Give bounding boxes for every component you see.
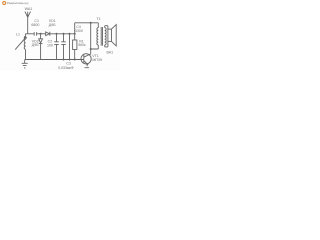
transformer core — [101, 27, 102, 46]
wire: top horizontal — [26, 33, 34, 35]
wire: drop to base line — [69, 34, 71, 60]
svg-text:Д9Б: Д9Б — [32, 43, 39, 47]
svg-text:Радиосхемы.ру: Радиосхемы.ру — [7, 1, 29, 5]
node dot — [74, 33, 76, 35]
wire: power rail — [75, 22, 99, 24]
diode VD1 — [46, 32, 50, 36]
diode VD2 — [39, 34, 43, 60]
svg-text:ВА1: ВА1 — [107, 51, 114, 55]
svg-text:L1: L1 — [16, 32, 20, 36]
transformer T1 secondary — [105, 26, 106, 47]
wire: bottom horizontal — [25, 59, 84, 61]
wire — [37, 33, 46, 35]
node dot — [74, 59, 76, 61]
node dot — [63, 33, 65, 35]
wire: secondary to speaker — [105, 26, 108, 47]
watermark logo — [2, 1, 6, 5]
capacitor C2 — [54, 34, 59, 60]
svg-text:Д9Б: Д9Б — [49, 23, 56, 27]
svg-text:МП39: МП39 — [92, 58, 102, 62]
transformer T1 primary — [97, 23, 98, 49]
capacitor C1 — [34, 32, 36, 36]
wire — [50, 33, 75, 35]
transistor VT1 — [81, 54, 91, 64]
svg-text:Т1: Т1 — [96, 17, 100, 21]
inductor L1 — [24, 34, 25, 60]
svg-text:560к: 560к — [78, 43, 86, 47]
node dot — [69, 33, 71, 35]
speaker BA1 — [108, 29, 112, 41]
wire — [74, 50, 76, 60]
svg-text:100: 100 — [47, 43, 53, 47]
antenna WA1 — [25, 12, 31, 34]
resistor R1 — [73, 40, 77, 50]
svg-text:WA1: WA1 — [25, 7, 33, 11]
svg-text:6800: 6800 — [31, 23, 39, 27]
svg-text:3300: 3300 — [75, 29, 83, 33]
wire: collector drop — [91, 23, 99, 55]
ground — [22, 60, 28, 68]
svg-text:0,033мкФ: 0,033мкФ — [58, 66, 74, 70]
node dot — [69, 59, 71, 61]
node dot — [90, 48, 92, 50]
emitter arrow — [85, 62, 87, 63]
node dot — [63, 59, 65, 61]
node dot — [40, 33, 42, 35]
wire: node B vertical — [74, 23, 76, 40]
node dot — [56, 33, 58, 35]
svg-text:C3: C3 — [66, 62, 71, 66]
node dot — [90, 22, 92, 24]
capacitor C3 — [61, 34, 66, 60]
arrow (variable core) — [15, 37, 26, 50]
